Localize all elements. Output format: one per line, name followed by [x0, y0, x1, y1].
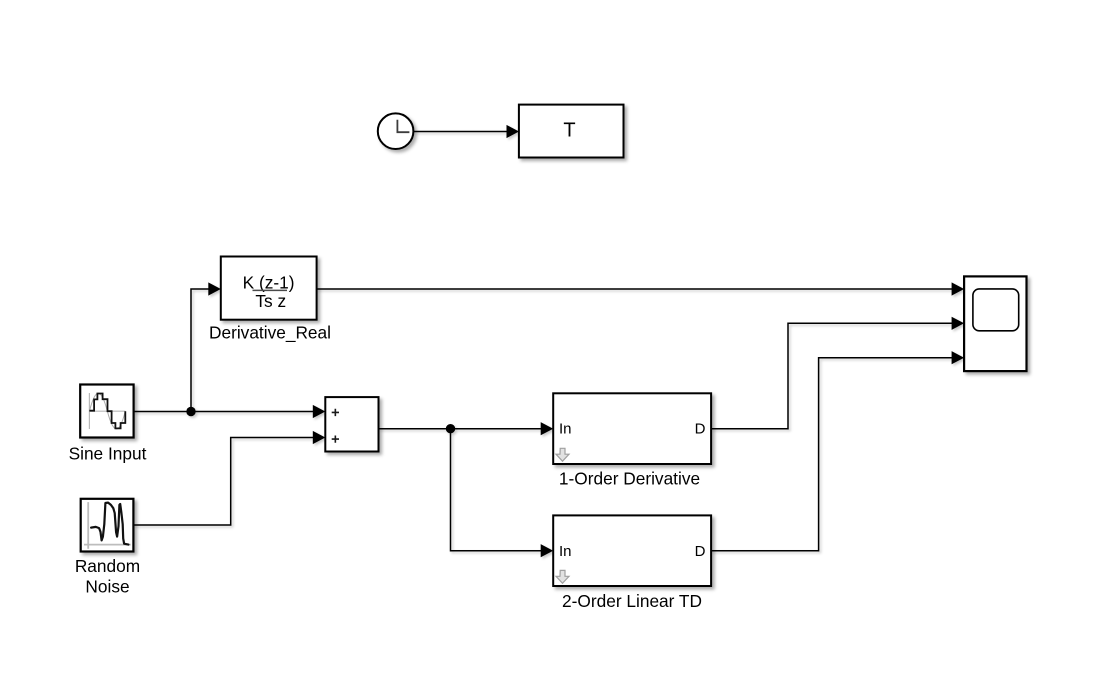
svg-text:In: In — [559, 421, 572, 438]
svg-text:K (z-1): K (z-1) — [243, 273, 295, 293]
svg-text:D: D — [695, 421, 706, 438]
svg-text:Derivative_Real: Derivative_Real — [209, 323, 331, 343]
svg-text:1-Order Derivative: 1-Order Derivative — [559, 469, 700, 489]
svg-text:Noise: Noise — [85, 577, 129, 597]
svg-text:2-Order Linear TD: 2-Order Linear TD — [562, 591, 702, 611]
svg-text:D: D — [695, 543, 706, 560]
svg-text:Sine Input: Sine Input — [69, 444, 147, 464]
svg-text:T: T — [563, 120, 575, 142]
svg-text:In: In — [559, 543, 572, 560]
svg-text:Ts z: Ts z — [255, 291, 286, 311]
svg-text:Random: Random — [75, 556, 140, 576]
